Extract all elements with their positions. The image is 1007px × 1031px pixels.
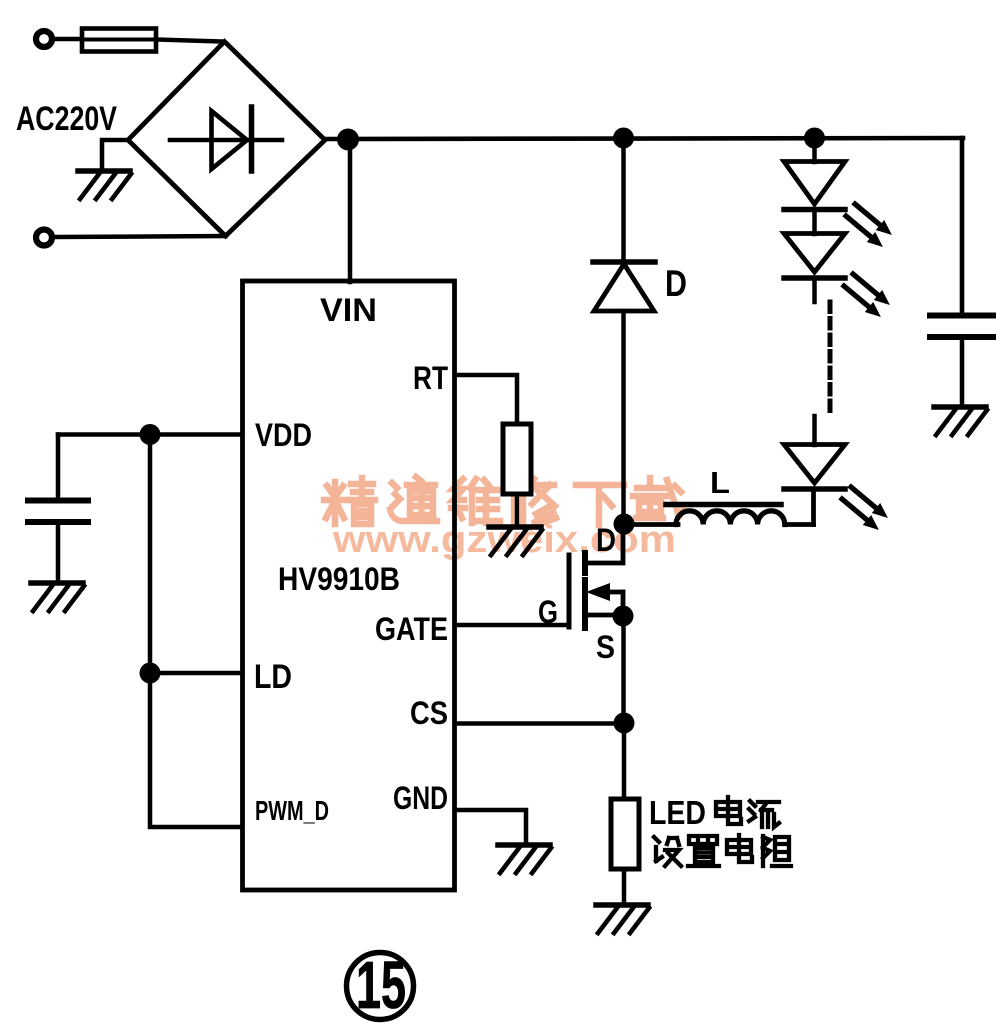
ground R2 xyxy=(596,905,649,933)
label char 设 xyxy=(654,837,681,866)
resistor R2 current set xyxy=(611,799,639,869)
wire S to CS junction xyxy=(621,616,626,723)
svg-text:CS: CS xyxy=(410,695,448,731)
wire top bus xyxy=(325,138,963,139)
wire LD pin xyxy=(150,671,242,676)
wire J1 to fuse xyxy=(53,37,84,42)
svg-text:VIN: VIN xyxy=(320,292,377,328)
label char 电 (2) xyxy=(727,835,752,862)
watermark char 精 xyxy=(324,478,375,524)
wire VDD to C1 xyxy=(56,435,61,499)
wire RT pin to R1 xyxy=(455,375,517,426)
wire bus to LED1 xyxy=(812,138,817,162)
label char 流 xyxy=(749,801,779,827)
capacitor C2 xyxy=(930,316,993,338)
ground C1 xyxy=(31,583,84,611)
svg-text:G: G xyxy=(538,594,558,630)
svg-text:AC220V: AC220V xyxy=(16,100,117,138)
svg-text:LED: LED xyxy=(649,794,706,831)
svg-text:L: L xyxy=(710,465,730,500)
wire VDD pin xyxy=(58,432,242,437)
LED D1 xyxy=(784,162,845,210)
label char 阻 xyxy=(763,836,791,866)
junction drain node xyxy=(614,514,635,535)
wire LD junction to PWM_D xyxy=(150,673,242,827)
watermark char 修 xyxy=(511,479,556,527)
resistor R1 xyxy=(503,424,531,494)
wire bus to diode D xyxy=(621,138,626,262)
wire D1 to D2 xyxy=(812,210,817,235)
svg-text:D: D xyxy=(596,522,616,558)
wire C2 to ground xyxy=(960,340,965,405)
wire LED3 to inductor corner xyxy=(811,489,816,525)
dashed line more LEDs xyxy=(828,302,833,417)
wire CS pin xyxy=(455,721,624,726)
wire diode D to drain node xyxy=(621,311,626,524)
watermark char 载 xyxy=(633,478,683,518)
wire GATE pin to Q1 gate xyxy=(455,623,569,628)
IC U1 HV9910B body xyxy=(243,281,455,890)
svg-text:VDD: VDD xyxy=(255,417,312,453)
junction LD xyxy=(140,663,161,684)
figure number 15 xyxy=(347,948,414,1023)
wire fuse to bridge xyxy=(156,40,223,42)
wire GND pin xyxy=(455,810,526,843)
watermark char 下 xyxy=(576,485,624,525)
junction VDD xyxy=(140,424,161,445)
wire to LED3 xyxy=(812,416,817,445)
diode D freewheeling xyxy=(593,262,655,311)
wire C1 to ground xyxy=(56,525,61,582)
label char 置 xyxy=(688,836,719,866)
junction bus/LED string xyxy=(804,128,825,149)
LED D2 xyxy=(784,234,845,279)
wire inductor to LED3 xyxy=(785,522,814,527)
bridge rectifier BR1 xyxy=(128,42,325,237)
wire VIN xyxy=(348,139,353,282)
svg-text:GND: GND xyxy=(393,780,448,816)
ground GND pin xyxy=(498,845,551,873)
LED D3 xyxy=(784,445,845,490)
junction CS node xyxy=(614,713,635,734)
watermark char 维 xyxy=(451,479,500,523)
ground C2 xyxy=(934,407,987,435)
wire CS node to R2 xyxy=(622,723,627,800)
svg-text:HV9910B: HV9910B xyxy=(278,561,400,597)
terminal J1 xyxy=(36,31,52,47)
inductor L xyxy=(666,505,785,525)
watermark char 通 xyxy=(390,477,437,521)
svg-text:D: D xyxy=(665,263,687,304)
wire D2 down xyxy=(812,278,817,302)
junction bus/VIN xyxy=(337,129,359,151)
svg-text:LD: LD xyxy=(254,658,292,696)
svg-text:S: S xyxy=(596,629,615,665)
arrows LED D3 xyxy=(842,487,888,530)
ground bridge xyxy=(78,171,131,199)
arrows LED D1 xyxy=(846,204,892,247)
transistor Q1 MOSFET xyxy=(569,529,623,628)
junction S node xyxy=(613,606,634,627)
wire J2 to bridge xyxy=(53,236,226,237)
wire R1 to ground xyxy=(515,494,520,526)
wire bus corner to C2 xyxy=(960,138,965,314)
svg-text:PWM_D: PWM_D xyxy=(255,795,329,826)
wire VDD junction to LD xyxy=(148,435,153,674)
fuse F1 xyxy=(82,29,156,52)
wire drain node to inductor xyxy=(624,522,678,527)
wire R2 to ground xyxy=(622,869,627,904)
svg-text:15: 15 xyxy=(356,948,406,1023)
ground R1 xyxy=(489,527,542,555)
junction bus/diode D xyxy=(613,128,634,149)
capacitor C1 xyxy=(28,501,88,523)
label char 电 xyxy=(716,797,741,824)
svg-text:GATE: GATE xyxy=(375,611,448,647)
wire bridge left vertex to ground xyxy=(102,140,128,170)
svg-text:RT: RT xyxy=(413,360,448,396)
terminal J2 xyxy=(36,230,52,246)
arrows LED D2 xyxy=(844,274,890,317)
